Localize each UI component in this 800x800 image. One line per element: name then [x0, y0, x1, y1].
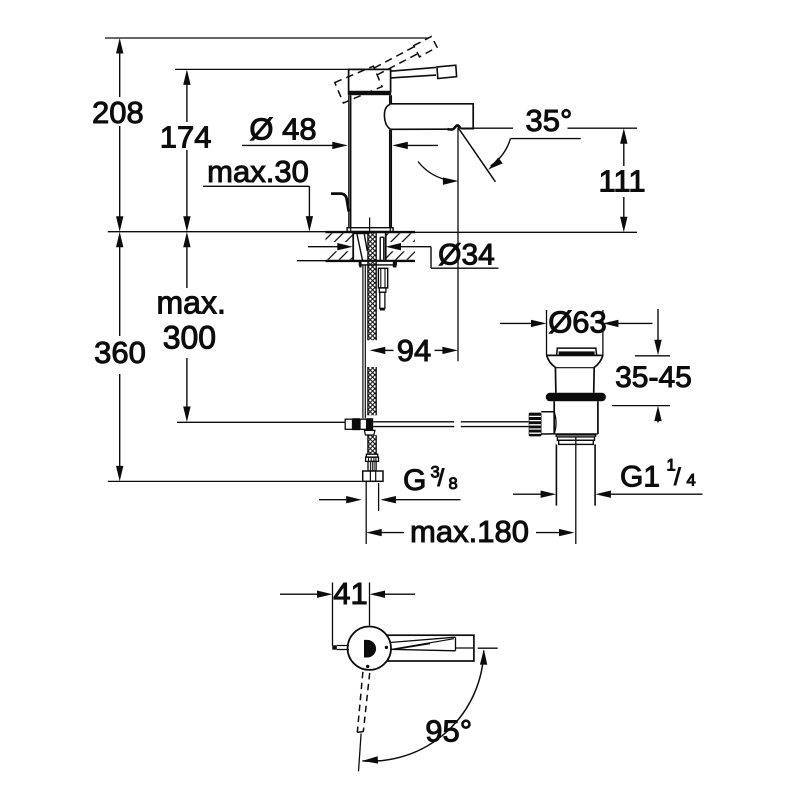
dimension 360 — [119, 246, 121, 467]
dimension 174 — [186, 84, 188, 217]
hose end crimp — [366, 454, 377, 457]
extension lines 35-45 — [612, 356, 670, 406]
svg-text:94: 94 — [397, 333, 431, 368]
horizontal pop-up rod — [373, 422, 529, 427]
top view: cartridge D mark — [364, 640, 376, 658]
drain side port — [541, 412, 554, 434]
pop-up pull rod top (L shape) — [331, 194, 349, 212]
spout butt rounded end — [384, 104, 390, 129]
faucet body left edge (double line) — [349, 95, 351, 227]
top view: angle reference line bottom — [359, 734, 362, 772]
mounting stud with nut — [378, 268, 387, 288]
counter bottom edge — [326, 260, 416, 262]
dimension 208 — [119, 53, 121, 217]
drain body — [554, 401, 598, 434]
faucet body right edge upper — [390, 95, 392, 104]
handle lever — [391, 67, 436, 78]
drain plug cap — [557, 348, 597, 355]
reference line top (overall height 208 level) — [105, 37, 429, 39]
dimension max.300 — [186, 246, 188, 408]
cap bottom thick band — [348, 91, 391, 95]
svg-text:/: / — [674, 464, 681, 491]
aerator 35 degree stream line — [458, 127, 496, 182]
dimension 111 — [623, 143, 625, 218]
counter slab hatching — [326, 233, 353, 242]
svg-text:300: 300 — [163, 320, 216, 356]
svg-text:max.180: max.180 — [410, 514, 529, 549]
drain O-ring seal — [546, 393, 606, 402]
svg-text:35°: 35° — [526, 103, 573, 138]
hose ridged connector — [368, 461, 376, 471]
flexible supply hose (braided) — [368, 233, 376, 454]
top view: 95 degree arc — [362, 651, 483, 762]
faucet base plate — [347, 228, 393, 232]
svg-text:95°: 95° — [425, 714, 472, 749]
dimension 35-45 — [657, 309, 659, 340]
extension line aerator outlet vertical (94 right) — [457, 128, 459, 362]
top view: angle reference line right — [478, 647, 498, 649]
dimension G 3/8 — [319, 499, 347, 501]
extension line G 3/8 right — [378, 483, 380, 511]
dimension G1 1/4 — [513, 493, 542, 495]
faucet cartridge cap — [349, 69, 391, 91]
svg-text:8: 8 — [449, 475, 458, 493]
svg-text:4: 4 — [687, 472, 696, 490]
extension line faucet centre (max180 left) — [365, 481, 367, 544]
extension line drain centre (max180 right) — [575, 437, 577, 544]
drain tailpipe — [556, 444, 595, 505]
faucet centreline — [369, 218, 371, 232]
svg-text:G1: G1 — [620, 460, 660, 493]
top view: dashed lever rotated 95 degrees — [357, 672, 369, 733]
top view: detail dots — [385, 646, 388, 649]
svg-text:Ø 48: Ø 48 — [249, 112, 316, 147]
svg-text:max.30: max.30 — [207, 154, 309, 189]
svg-text:/: / — [438, 465, 445, 492]
top view: lever — [379, 635, 474, 661]
reference line handle-base top (174 level) — [175, 68, 389, 70]
top view: body circle — [348, 627, 391, 670]
svg-text:Ø63: Ø63 — [548, 304, 607, 339]
svg-text:111: 111 — [598, 164, 645, 199]
dimension diameter 63 — [500, 322, 531, 324]
drain flange bell — [547, 355, 603, 392]
dimension diameter 34 (hole) — [308, 246, 338, 248]
dimension max.180 — [381, 532, 404, 534]
top view: pull rod pointing left — [332, 645, 337, 649]
drain collar rings — [557, 437, 594, 440]
dimension 94 — [385, 349, 394, 351]
reference line hose end (360 bottom level) — [108, 480, 362, 482]
counter hole edges — [353, 233, 386, 260]
pop-up rod to hose junction — [345, 419, 352, 429]
dimension 41 — [280, 593, 317, 595]
svg-text:35-45: 35-45 — [615, 361, 692, 394]
mounting washer under counter — [359, 261, 396, 265]
reference line counter top extended right — [415, 231, 637, 233]
shank parts in hole — [354, 232, 370, 234]
svg-text:G: G — [403, 464, 426, 497]
drain adjuster knob (knurled) — [529, 413, 542, 437]
svg-text:max.: max. — [157, 285, 226, 321]
svg-text:208: 208 — [92, 95, 144, 130]
svg-text:174: 174 — [160, 120, 212, 155]
reference line spout outlet level right — [461, 127, 637, 129]
svg-text:41: 41 — [333, 576, 367, 611]
dashed handle lever raised position — [333, 36, 443, 103]
hose knurled ring — [366, 457, 379, 461]
G3/8 hex nut — [363, 471, 383, 481]
drain neck — [556, 435, 595, 437]
spout outline — [390, 104, 473, 130]
reference line counter top extended left — [108, 231, 326, 233]
top view: 41 dimension extension lines — [333, 583, 370, 646]
faucet body right edge lower (double line) — [390, 130, 392, 228]
extension lines diameter 63 — [547, 310, 603, 355]
svg-text:360: 360 — [94, 335, 146, 370]
counter top edge — [326, 231, 416, 233]
svg-text:Ø34: Ø34 — [438, 238, 495, 271]
pull rod below counter — [363, 265, 365, 418]
